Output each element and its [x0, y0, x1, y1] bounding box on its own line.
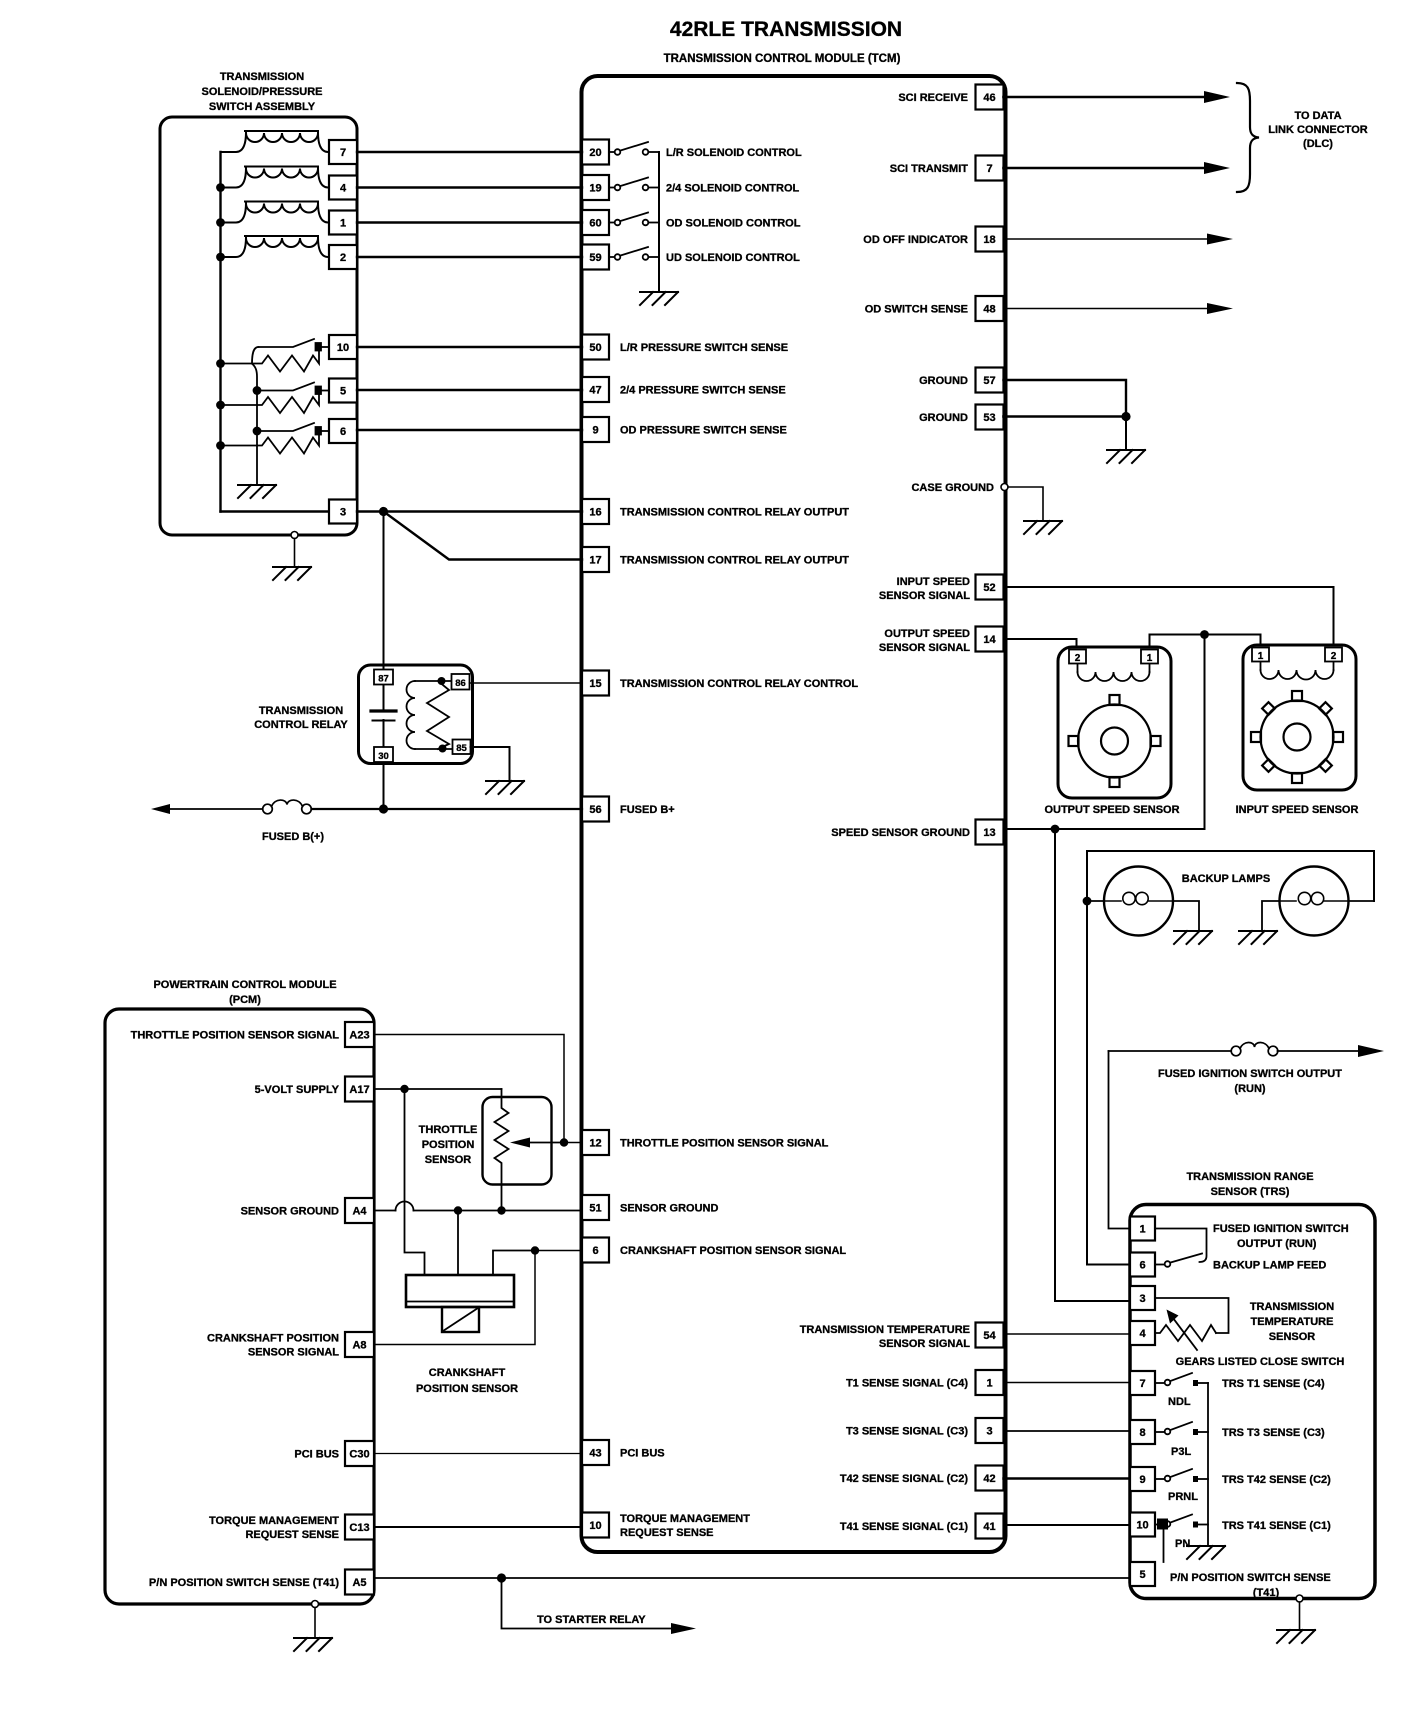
svg-text:LINK CONNECTOR: LINK CONNECTOR [1268, 124, 1367, 136]
svg-text:15: 15 [589, 678, 601, 690]
switch TRS T1 (NDL) [1155, 1373, 1208, 1385]
TRS pin 5 [1130, 1562, 1155, 1586]
svg-text:L/R SOLENOID CONTROL: L/R SOLENOID CONTROL [666, 147, 802, 159]
svg-text:SWITCH ASSEMBLY: SWITCH ASSEMBLY [209, 101, 316, 113]
svg-text:TRS T41 SENSE (C1): TRS T41 SENSE (C1) [1222, 1520, 1331, 1532]
TCM left pin 6 [582, 1238, 609, 1263]
wire TCM 52 to input speed sensor pin 2 [1004, 587, 1334, 649]
svg-text:SENSOR SIGNAL: SENSOR SIGNAL [248, 1347, 339, 1359]
wire assembly case to ground [294, 539, 296, 567]
svg-text:THROTTLE POSITION SENSOR SIGNA: THROTTLE POSITION SENSOR SIGNAL [131, 1030, 340, 1042]
output speed sensor pin 2 [1069, 650, 1086, 665]
svg-text:GEARS LISTED CLOSE SWITCH: GEARS LISTED CLOSE SWITCH [1176, 1356, 1345, 1368]
label P/N POSITION SWITCH SENSE (T41) inside TRS [1170, 1572, 1331, 1599]
junction SW3 tap [253, 427, 262, 436]
ground TRS case [1277, 1630, 1315, 1643]
svg-text:54: 54 [983, 1330, 996, 1342]
TRS pin 10 [1130, 1513, 1155, 1537]
wire relay 30 down to fused B+ node [383, 720, 385, 809]
wire ground 57 [1004, 380, 1127, 412]
wire TRS case to ground [1299, 1602, 1301, 1629]
wire fused ignition switch output [1109, 1050, 1232, 1052]
switch L/R solenoid control driver [609, 142, 659, 155]
TRS pin 6 [1130, 1253, 1155, 1277]
svg-text:CRANKSHAFT: CRANKSHAFT [429, 1367, 506, 1379]
TCM left pin 56 [582, 797, 609, 822]
svg-text:REQUEST SENSE: REQUEST SENSE [620, 1527, 714, 1539]
svg-text:SENSOR GROUND: SENSOR GROUND [241, 1206, 339, 1218]
svg-text:5: 5 [1139, 1569, 1145, 1581]
svg-text:42: 42 [983, 1473, 995, 1485]
svg-text:(DLC): (DLC) [1303, 138, 1333, 150]
TRS pin 8 [1130, 1420, 1155, 1444]
switch TRS T3 (P3L) [1155, 1422, 1208, 1434]
wire hop A4 over A17 riser [396, 1202, 414, 1211]
relay pin 30 [374, 747, 393, 762]
svg-text:12: 12 [589, 1138, 601, 1150]
assembly pin 10 [329, 335, 357, 359]
TCM right pin 13 [976, 820, 1004, 845]
wire relay 85 to ground [471, 747, 510, 780]
label TRANSMISSION SOLENOID/PRESSURE SWITCH ASSEMBLY [201, 71, 322, 113]
PCM pin A23 [345, 1022, 374, 1047]
solenoid/pressure switch assembly box [160, 117, 357, 535]
wire SCI transmit out [1004, 167, 1207, 170]
wire right lamp to loop [1349, 900, 1375, 902]
svg-text:A23: A23 [349, 1030, 369, 1042]
svg-text:OUTPUT (RUN): OUTPUT (RUN) [1237, 1238, 1317, 1250]
svg-text:FUSED IGNITION SWITCH: FUSED IGNITION SWITCH [1213, 1223, 1349, 1235]
wire gear switch bus [1207, 1383, 1209, 1545]
svg-text:A5: A5 [352, 1577, 366, 1589]
wire A5 to TRS 5 [374, 1577, 1130, 1579]
wire PCM case to ground [314, 1608, 316, 1638]
junction crank signal node [531, 1246, 539, 1254]
wire C13 to TCM 10 [374, 1526, 582, 1528]
TRS pin 4 [1130, 1321, 1155, 1345]
case ground circle [1001, 484, 1008, 491]
svg-text:POSITION: POSITION [422, 1139, 475, 1151]
svg-text:SENSOR (TRS): SENSOR (TRS) [1211, 1186, 1290, 1198]
svg-text:TRANSMISSION CONTROL RELAY OUT: TRANSMISSION CONTROL RELAY OUTPUT [620, 555, 849, 567]
TRS module box [1130, 1205, 1375, 1599]
label TRANSMISSION CONTROL RELAY [254, 705, 348, 731]
TCM left pin 43 [582, 1440, 609, 1465]
junction grounds 57-53 [1121, 412, 1130, 421]
ground solenoid driver bus [640, 292, 678, 305]
svg-text:P3L: P3L [1171, 1446, 1191, 1458]
PCM pin A5 [345, 1570, 374, 1595]
ground relay 85 [486, 781, 524, 794]
junction A4-crank [454, 1206, 462, 1214]
assembly pin 3 [329, 500, 357, 524]
backup lamp left [1104, 867, 1173, 936]
svg-text:2/4 SOLENOID CONTROL: 2/4 SOLENOID CONTROL [666, 183, 800, 195]
input speed sensor box [1243, 645, 1356, 790]
svg-text:TRANSMISSION: TRANSMISSION [1250, 1301, 1334, 1313]
svg-text:THROTTLE POSITION SENSOR SIGNA: THROTTLE POSITION SENSOR SIGNAL [620, 1138, 829, 1150]
svg-text:T42 SENSE SIGNAL (C2): T42 SENSE SIGNAL (C2) [840, 1473, 968, 1485]
switch UD solenoid control driver [609, 247, 659, 260]
wire fuse to arrow [1278, 1050, 1362, 1052]
svg-text:OUTPUT SPEED: OUTPUT SPEED [884, 628, 970, 640]
svg-text:18: 18 [983, 234, 995, 246]
switch TRS T41 (PN) [1155, 1515, 1208, 1527]
arrow OD off indicator [1207, 234, 1233, 245]
assembly pin 1 [329, 211, 357, 235]
svg-text:17: 17 [589, 555, 601, 567]
TCM right pin 57 [976, 368, 1004, 393]
relay K1 box TRANSMISSION CONTROL RELAY [359, 665, 473, 764]
svg-text:4: 4 [340, 183, 347, 195]
TCM right pin 18 [976, 227, 1004, 252]
wire to left lamp [1087, 900, 1104, 902]
svg-text:41: 41 [983, 1521, 995, 1533]
solenoid coil L4 (pin 2) [221, 236, 329, 257]
TCM right pin 14 [976, 627, 1004, 652]
svg-text:(T41): (T41) [1253, 1587, 1280, 1599]
TCM left pin 9 [582, 417, 609, 442]
svg-text:SENSOR SIGNAL: SENSOR SIGNAL [879, 1338, 970, 1350]
junction speed sensor link [1200, 630, 1209, 639]
TRS pin 7 [1130, 1371, 1155, 1395]
pressure switch group vertical link [252, 364, 257, 485]
wire fused ignition riser to TRS 1 [1109, 1051, 1131, 1229]
svg-text:85: 85 [456, 743, 467, 754]
wire pin3 to TCM 16 [357, 510, 582, 512]
svg-text:SENSOR GROUND: SENSOR GROUND [620, 1203, 718, 1215]
output speed sensor pin 1 [1141, 650, 1158, 665]
wire case ground [1008, 487, 1043, 520]
svg-text:INPUT SPEED: INPUT SPEED [897, 576, 970, 588]
solenoid coil L1 (pin 7) [221, 131, 329, 152]
backup lamp right [1280, 867, 1349, 936]
TCM left pin 15 [582, 671, 609, 696]
svg-text:PN: PN [1175, 1538, 1190, 1550]
TCM left pin 60 [582, 210, 609, 235]
label TRANSMISSION RANGE SENSOR (TRS) [1186, 1171, 1313, 1198]
junction bus-SW2 [216, 401, 225, 410]
brace DLC [1237, 83, 1259, 192]
PCM pin A17 [345, 1077, 374, 1102]
assembly case ground circle [291, 532, 298, 539]
svg-text:L/R PRESSURE SWITCH SENSE: L/R PRESSURE SWITCH SENSE [620, 342, 788, 354]
TRS pin 1 [1130, 1217, 1155, 1241]
wire TCM 42 to TRS 9 [1004, 1477, 1131, 1479]
relay pin 87 [374, 670, 393, 685]
PCM module box [105, 1009, 374, 1604]
wire TRS 3 internal loop [1155, 1298, 1229, 1333]
svg-text:SENSOR: SENSOR [1269, 1331, 1316, 1343]
svg-text:1: 1 [1147, 653, 1153, 664]
junction throttle signal node [560, 1138, 568, 1146]
switch TRS T42 (PRNL) [1155, 1469, 1208, 1481]
svg-text:57: 57 [983, 375, 995, 387]
svg-text:CRANKSHAFT POSITION: CRANKSHAFT POSITION [207, 1333, 339, 1345]
input speed sensor coil [1261, 662, 1334, 680]
svg-text:1: 1 [340, 218, 346, 230]
svg-text:TRS T1 SENSE (C4): TRS T1 SENSE (C4) [1222, 1378, 1325, 1390]
svg-text:7: 7 [986, 163, 992, 175]
wire TRS 1 internal [1155, 1229, 1207, 1263]
label TORQUE MANAGEMENT REQUEST SENSE (C13) [209, 1515, 339, 1541]
svg-text:OD OFF INDICATOR: OD OFF INDICATOR [863, 234, 968, 246]
svg-text:PRNL: PRNL [1168, 1491, 1198, 1503]
svg-text:7: 7 [340, 147, 346, 159]
contact TRS T42 [1193, 1476, 1198, 1482]
svg-text:TORQUE MANAGEMENT: TORQUE MANAGEMENT [209, 1515, 339, 1527]
label TO DATA LINK CONNECTOR (DLC) [1268, 110, 1367, 150]
contact TRS T3 [1193, 1429, 1198, 1435]
wire fuse to TCM 56 [312, 808, 583, 810]
wire pin7 to TCM 20 [357, 151, 582, 153]
solenoid coil L2 (pin 4) [221, 167, 329, 188]
node pin 10 tap square [1157, 1519, 1168, 1530]
TCM left pin 12 [582, 1130, 609, 1155]
TPS resistor R1 [495, 1089, 509, 1211]
svg-text:A8: A8 [352, 1340, 366, 1352]
svg-text:9: 9 [592, 425, 598, 437]
svg-text:SPEED SENSOR GROUND: SPEED SENSOR GROUND [831, 827, 970, 839]
junction A4-TPS [497, 1206, 505, 1214]
svg-text:TEMPERATURE: TEMPERATURE [1251, 1316, 1334, 1328]
svg-text:C30: C30 [349, 1449, 369, 1461]
PCM pin A8 [345, 1332, 374, 1357]
svg-text:1: 1 [1258, 651, 1264, 662]
svg-text:OUTPUT SPEED SENSOR: OUTPUT SPEED SENSOR [1044, 804, 1179, 816]
svg-text:TRANSMISSION CONTROL RELAY OUT: TRANSMISSION CONTROL RELAY OUTPUT [620, 507, 849, 519]
input speed sensor rotor [1251, 691, 1343, 783]
TRS pin 3 [1130, 1286, 1155, 1310]
svg-text:POSITION SENSOR: POSITION SENSOR [416, 1383, 518, 1395]
arrow fused ignition out [1358, 1045, 1384, 1057]
svg-text:P/N POSITION SWITCH SENSE: P/N POSITION SWITCH SENSE [1170, 1572, 1331, 1584]
TCM left pin 47 [582, 377, 609, 402]
svg-text:INPUT SPEED SENSOR: INPUT SPEED SENSOR [1236, 804, 1359, 816]
junction backup lamp left [1083, 897, 1092, 906]
svg-text:TRANSMISSION TEMPERATURE: TRANSMISSION TEMPERATURE [800, 1324, 970, 1336]
svg-text:52: 52 [983, 582, 995, 594]
label TRANSMISSION TEMPERATURE SENSOR [1250, 1301, 1334, 1343]
junction fused B+ node [379, 804, 388, 813]
svg-text:SCI RECEIVE: SCI RECEIVE [898, 92, 968, 104]
svg-text:6: 6 [592, 1245, 598, 1257]
crankshaft position sensor body [406, 1275, 514, 1332]
svg-text:2: 2 [340, 252, 346, 264]
thermistor transmission temperature sensor [1155, 1318, 1216, 1350]
svg-text:30: 30 [378, 751, 389, 762]
wire ground 53 [1004, 415, 1127, 418]
wire TCM 1 to TRS 7 [1004, 1382, 1131, 1384]
PCM pin C13 [345, 1515, 374, 1540]
svg-text:GROUND: GROUND [919, 375, 968, 387]
wire A17 5-volt supply [374, 1088, 502, 1090]
junction bus-SW3 [216, 441, 225, 450]
svg-text:SCI TRANSMIT: SCI TRANSMIT [890, 163, 969, 175]
TCM left pin 20 [582, 140, 609, 165]
TCM right pin 53 [976, 405, 1004, 430]
wire TCM 13 speed sensor ground [1004, 828, 1205, 830]
svg-text:BACKUP LAMPS: BACKUP LAMPS [1182, 873, 1270, 885]
wire node3 down to relay 87 [383, 512, 385, 712]
arrow SCI transmit [1204, 162, 1230, 174]
solenoid coil L3 (pin 1) [221, 202, 329, 223]
junction relay coil top [438, 677, 446, 685]
svg-text:6: 6 [340, 426, 346, 438]
assembly pin 6 [329, 419, 357, 443]
svg-text:NDL: NDL [1168, 1396, 1191, 1408]
output speed sensor rotor [1069, 695, 1161, 787]
svg-text:8: 8 [1139, 1427, 1145, 1439]
TCM right pin 46 [976, 85, 1004, 110]
svg-text:9: 9 [1139, 1474, 1145, 1486]
output speed sensor box [1058, 647, 1171, 798]
label THROTTLE POSITION SENSOR [419, 1124, 478, 1166]
wire pin1 to TCM 60 [357, 221, 582, 223]
svg-text:10: 10 [1136, 1520, 1148, 1532]
wire left lamp to ground [1173, 901, 1199, 930]
TCM right pin 3 [976, 1418, 1004, 1443]
svg-text:16: 16 [589, 507, 601, 519]
TCM right pin 42 [976, 1466, 1004, 1491]
wire pin10 to TCM 50 [357, 346, 582, 348]
svg-text:19: 19 [589, 183, 601, 195]
svg-text:7: 7 [1139, 1378, 1145, 1390]
relay contact bars [371, 709, 396, 712]
svg-text:TORQUE MANAGEMENT: TORQUE MANAGEMENT [620, 1513, 750, 1525]
wire ground node to TRS pin 3 [1055, 829, 1130, 1301]
svg-text:5: 5 [340, 386, 346, 398]
fuse ignition F2 [1231, 1042, 1278, 1055]
wire pin2 to TCM 59 [357, 256, 582, 258]
svg-text:TO STARTER RELAY: TO STARTER RELAY [537, 1614, 646, 1626]
wire A17 riser down to crank sensor [405, 1089, 425, 1275]
svg-text:10: 10 [337, 342, 349, 354]
TCM left pin 17 [582, 547, 609, 572]
TCM left pin 51 [582, 1195, 609, 1220]
svg-text:POWERTRAIN CONTROL MODULE: POWERTRAIN CONTROL MODULE [153, 979, 336, 991]
svg-text:SOLENOID/PRESSURE: SOLENOID/PRESSURE [201, 86, 322, 98]
wire node into TPS wiper [528, 1142, 564, 1144]
svg-text:42RLE TRANSMISSION: 42RLE TRANSMISSION [670, 18, 902, 41]
svg-text:13: 13 [983, 827, 995, 839]
svg-text:OD PRESSURE SWITCH SENSE: OD PRESSURE SWITCH SENSE [620, 425, 787, 437]
svg-text:OD SOLENOID CONTROL: OD SOLENOID CONTROL [666, 218, 801, 230]
wire pin4 to TCM 19 [357, 186, 582, 188]
svg-text:CONTROL RELAY: CONTROL RELAY [254, 719, 348, 731]
TCM right pin 48 [976, 296, 1004, 321]
wire C30 PCI bus to TCM 43 [374, 1453, 582, 1455]
svg-text:TRANSMISSION: TRANSMISSION [259, 705, 343, 717]
2/4 pressure switch SW2 [221, 383, 330, 414]
svg-text:1: 1 [1139, 1224, 1145, 1236]
svg-text:REQUEST SENSE: REQUEST SENSE [245, 1529, 339, 1541]
wire fused B+ left segment [168, 808, 263, 810]
OD pressure switch SW3 [221, 423, 330, 454]
svg-text:59: 59 [589, 252, 601, 264]
svg-text:3: 3 [1139, 1293, 1145, 1305]
svg-text:20: 20 [589, 147, 601, 159]
wire solenoid driver common bus [658, 152, 660, 292]
label POWERTRAIN CONTROL MODULE (PCM) [153, 979, 336, 1006]
output speed sensor coil [1078, 664, 1150, 682]
svg-text:4: 4 [1139, 1328, 1146, 1340]
svg-text:SENSOR SIGNAL: SENSOR SIGNAL [879, 642, 970, 654]
svg-text:UD SOLENOID CONTROL: UD SOLENOID CONTROL [666, 252, 800, 264]
assembly pin 7 [329, 140, 357, 164]
svg-text:TRANSMISSION CONTROL RELAY CON: TRANSMISSION CONTROL RELAY CONTROL [620, 678, 858, 690]
label FUSED IGNITION SWITCH OUTPUT (RUN) inside TRS [1213, 1223, 1349, 1250]
wire relay 86 to TCM 15 [470, 682, 583, 684]
TCM right pin 54 [976, 1323, 1004, 1348]
wire TCM 41 to TRS 10 [1004, 1524, 1131, 1526]
wire output pin1 to input pin1 [1150, 635, 1261, 652]
svg-text:THROTTLE: THROTTLE [419, 1124, 478, 1136]
TCM right pin 1 [976, 1370, 1004, 1395]
wire right lamp to ground [1262, 901, 1280, 930]
svg-text:PCI BUS: PCI BUS [294, 1449, 339, 1461]
TCM left pin 50 [582, 335, 609, 360]
svg-text:1: 1 [986, 1378, 992, 1390]
svg-text:2: 2 [1331, 651, 1337, 662]
wire assembly common bus [219, 152, 221, 512]
TRS case ground circle [1296, 1595, 1303, 1602]
svg-text:TRANSMISSION RANGE: TRANSMISSION RANGE [1186, 1171, 1313, 1183]
svg-text:TRANSMISSION CONTROL MODULE (T: TRANSMISSION CONTROL MODULE (TCM) [664, 53, 901, 65]
wire A4 sensor ground to TCM 51 [374, 1210, 582, 1212]
ground TCM case [1024, 521, 1062, 534]
junction speed sensor ground node [1051, 825, 1060, 834]
input speed sensor pin 2 [1325, 648, 1342, 663]
svg-text:47: 47 [589, 385, 601, 397]
wire branch to TCM 17 [384, 512, 583, 560]
svg-text:10: 10 [589, 1520, 601, 1532]
svg-text:T1 SENSE SIGNAL (C4): T1 SENSE SIGNAL (C4) [846, 1378, 968, 1390]
wire pin6 to TCM 9 [357, 429, 582, 431]
TCM left pin 16 [582, 499, 609, 524]
L/R pressure switch SW1 [221, 339, 330, 372]
TCM left pin 19 [582, 175, 609, 200]
switch OD solenoid control driver [609, 213, 659, 226]
svg-text:OD SWITCH SENSE: OD SWITCH SENSE [865, 304, 968, 316]
TCM module box U-TCM [582, 76, 1006, 1552]
fuse F1 [263, 800, 312, 814]
label FUSED IGNITION SWITCH OUTPUT (RUN) [1158, 1068, 1342, 1095]
svg-text:T3 SENSE SIGNAL (C3): T3 SENSE SIGNAL (C3) [846, 1426, 968, 1438]
TCM right pin 41 [976, 1514, 1004, 1539]
svg-text:14: 14 [983, 634, 996, 646]
ground left backup lamp [1174, 931, 1212, 944]
PCM case ground circle [312, 1601, 319, 1608]
svg-text:TRS T42 SENSE (C2): TRS T42 SENSE (C2) [1222, 1474, 1331, 1486]
svg-text:60: 60 [589, 218, 601, 230]
wire grounds to ground symbol [1125, 417, 1127, 450]
arrow TPS wiper [510, 1138, 530, 1148]
svg-text:A4: A4 [352, 1206, 367, 1218]
label CRANKSHAFT POSITION SENSOR [416, 1367, 518, 1395]
relay pin 86 [452, 674, 470, 690]
svg-text:48: 48 [983, 304, 995, 316]
junction bus-L2 [216, 183, 225, 192]
svg-text:5-VOLT SUPPLY: 5-VOLT SUPPLY [255, 1084, 340, 1096]
wire node to TCM 6 [535, 1250, 582, 1252]
PCM pin C30 [345, 1441, 374, 1466]
TCM left pin 59 [582, 245, 609, 270]
TCM left pin 10 [582, 1513, 609, 1538]
wire backup lamps top loop [1087, 851, 1374, 901]
svg-text:TO DATA: TO DATA [1294, 110, 1341, 122]
TRS pin 9 [1130, 1467, 1155, 1491]
